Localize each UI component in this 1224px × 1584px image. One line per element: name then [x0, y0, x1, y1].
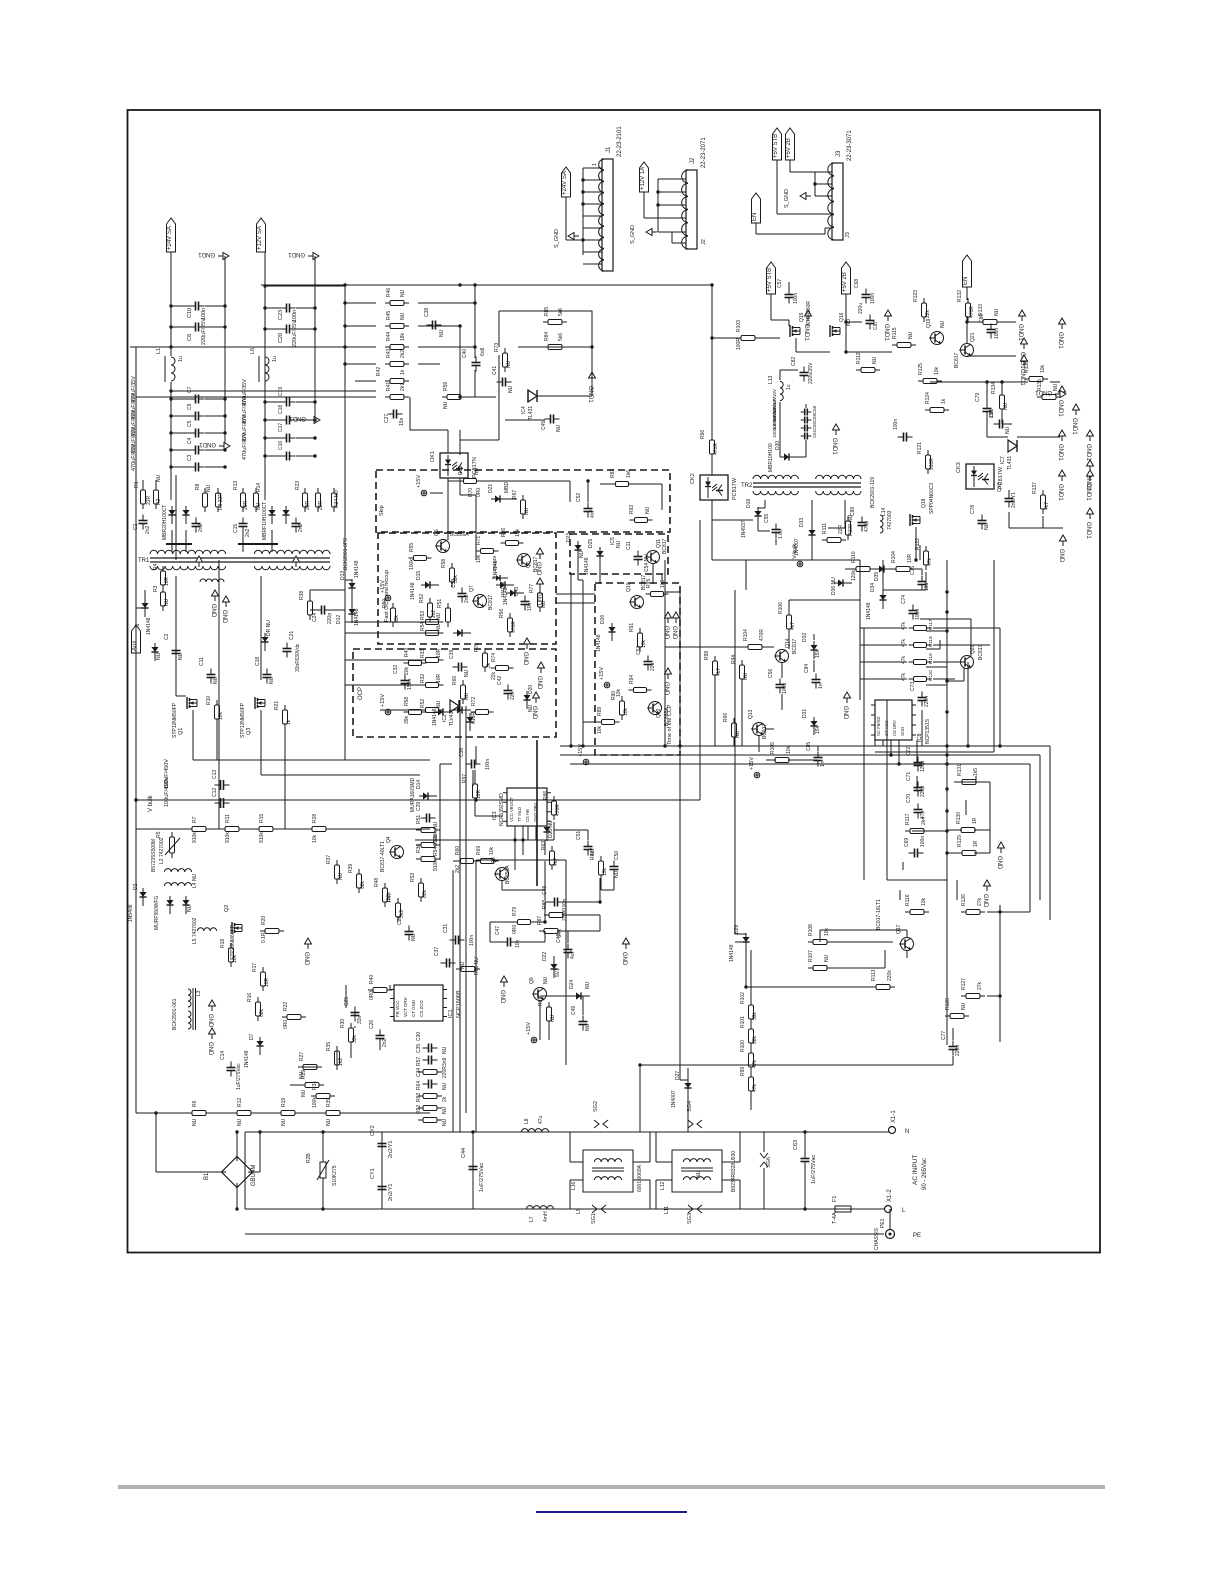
svg-text:D23: D23 — [566, 533, 572, 542]
svg-text:C37: C37 — [434, 947, 440, 956]
svg-text:R121: R121 — [917, 442, 923, 454]
svg-text:5k6: 5k6 — [558, 333, 564, 341]
resistor R92 NU — [418, 1118, 442, 1123]
svg-text:10k: 10k — [597, 725, 603, 734]
ground GND — [210, 590, 219, 618]
svg-text:R96: R96 — [700, 430, 706, 439]
diode D8 MBRF10H100CT — [268, 506, 275, 524]
svg-text:1N4148: 1N4148 — [500, 581, 505, 598]
svg-text:1N4148: 1N4148 — [584, 557, 590, 575]
svg-text:Q2: Q2 — [224, 905, 230, 912]
transistor Q1 STP12NM50FP — [187, 697, 197, 709]
capacitor C51 4n7 — [584, 841, 593, 856]
transistor Q13 BC817 — [751, 723, 766, 736]
svg-text:Q4: Q4 — [386, 836, 392, 843]
capacitor C39 NU — [453, 663, 468, 672]
capacitor C2 NU — [172, 645, 181, 660]
ground S_GND — [800, 193, 811, 200]
svg-text:1N4148: 1N4148 — [244, 1050, 250, 1068]
svg-text:R84: R84 — [544, 332, 550, 341]
svg-text:220p: 220p — [327, 613, 333, 624]
svg-text:4mH: 4mH — [543, 1211, 549, 1222]
wire — [265, 419, 281, 421]
svg-text:Skip: Skip — [379, 505, 385, 516]
transformer L3 BCK2901-061 — [188, 989, 191, 1007]
wire — [265, 285, 345, 287]
wire — [142, 480, 144, 490]
svg-text:Q18: Q18 — [921, 498, 927, 508]
svg-text:2n2: 2n2 — [245, 528, 251, 537]
svg-text:C52: C52 — [576, 493, 582, 502]
resistor R82 13k — [599, 856, 604, 880]
svg-text:CY1: CY1 — [370, 1168, 376, 1179]
svg-text:BCK2901-0P8: BCK2901-0P8 — [343, 538, 349, 570]
svg-text:1N4148: 1N4148 — [729, 944, 735, 962]
ground GND — [207, 1028, 216, 1056]
wire — [475, 746, 477, 764]
wire — [711, 285, 713, 440]
resistor R7 910k — [187, 827, 211, 832]
svg-text:B1: B1 — [204, 1172, 210, 1180]
svg-text:1N4148: 1N4148 — [354, 560, 360, 578]
wire — [933, 627, 1000, 629]
resistor R49 20k — [404, 661, 427, 666]
svg-text:10k: 10k — [312, 834, 318, 843]
svg-text:R63: R63 — [541, 841, 547, 850]
wire — [600, 876, 602, 890]
svg-text:NU: NU — [192, 1118, 198, 1126]
wire — [711, 520, 713, 560]
svg-text:GND: GND — [536, 676, 542, 690]
svg-text:GND: GND — [996, 856, 1002, 870]
net flag +5VSTB rail — [767, 262, 776, 294]
svg-text:D33: D33 — [799, 518, 805, 527]
resistor R122 47k — [924, 546, 929, 570]
svg-text:1uF/275Vac: 1uF/275Vac — [236, 1063, 242, 1090]
svg-text:82k: 82k — [422, 889, 428, 898]
wire — [171, 305, 190, 307]
svg-text:Q14: Q14 — [785, 638, 791, 648]
wire — [714, 680, 716, 746]
svg-text:F1: F1 — [832, 1196, 838, 1202]
svg-text:CS DRV: CS DRV — [892, 720, 897, 736]
svg-text:1uF/275Vac: 1uF/275Vac — [479, 1162, 485, 1192]
svg-text:NU: NU — [436, 623, 442, 631]
resistor R1 22R — [141, 485, 146, 509]
svg-text:C43: C43 — [514, 587, 520, 596]
junction — [134, 798, 137, 801]
capacitor C27 15n — [388, 410, 403, 419]
ground GND — [535, 548, 544, 576]
svg-text:Q7: Q7 — [469, 585, 475, 592]
transistor Q8 BC856A — [494, 868, 509, 881]
svg-text:1: 1 — [592, 163, 598, 166]
svg-text:47k: 47k — [901, 638, 907, 647]
svg-text:R64: R64 — [416, 1081, 422, 1090]
svg-text:R55: R55 — [409, 543, 415, 552]
diode D4 MURF550WFG — [166, 896, 173, 914]
svg-text:EN: EN — [752, 213, 758, 221]
diode D17 1N4148 — [506, 589, 524, 596]
wire — [472, 1132, 474, 1209]
svg-text:R33: R33 — [420, 649, 426, 658]
transistor Q15 NTD4960R — [790, 325, 800, 337]
svg-text:R124: R124 — [925, 392, 931, 404]
resistor R22 0R0 — [282, 1015, 306, 1020]
wire — [474, 860, 480, 862]
resistor R63 4k7 — [550, 846, 555, 870]
capacitor C21 33nF630Vdc — [283, 643, 292, 658]
wire — [381, 1132, 383, 1209]
svg-text:1u: 1u — [178, 356, 184, 362]
svg-text:X1-1: X1-1 — [891, 1110, 897, 1123]
svg-text:C46: C46 — [556, 934, 562, 943]
op-amp IC2 TLV431 — [450, 700, 459, 712]
svg-text:D22: D22 — [542, 952, 548, 961]
resistor R129 1R — [957, 851, 981, 856]
op-amp IC4 TL431 — [528, 390, 537, 402]
svg-text:1N4148: 1N4148 — [596, 634, 602, 652]
svg-text:0R0: 0R0 — [369, 991, 375, 1000]
svg-text:C20: C20 — [278, 333, 284, 343]
wire — [345, 579, 352, 581]
diode D6 — [182, 506, 189, 524]
svg-text:R27: R27 — [299, 1052, 305, 1061]
capacitor C15 2n2 — [239, 518, 248, 533]
wire — [644, 217, 658, 219]
svg-text:GND1: GND1 — [1035, 389, 1052, 395]
svg-text:S_GND: S_GND — [554, 229, 560, 248]
wire — [260, 576, 262, 680]
svg-text:L6: L6 — [250, 348, 256, 354]
capacitor C46 4u7 — [564, 944, 573, 959]
svg-text:S_GND: S_GND — [784, 189, 790, 208]
svg-text:L7: L7 — [529, 1216, 535, 1222]
resistor R33 10R — [421, 658, 444, 663]
svg-text:C32: C32 — [393, 665, 399, 674]
svg-text:C75: C75 — [910, 566, 916, 575]
svg-text:GND: GND — [671, 626, 677, 640]
ground GND1 — [587, 372, 596, 403]
svg-text:10R: 10R — [436, 648, 442, 658]
capacitor C32 150n — [401, 675, 410, 690]
svg-text:10k: 10k — [623, 707, 629, 716]
svg-text:22R: 22R — [318, 500, 324, 510]
wire — [284, 725, 286, 829]
wire — [322, 1132, 324, 1162]
svg-text:J1: J1 — [606, 146, 612, 153]
wire — [661, 574, 663, 584]
svg-text:R30: R30 — [340, 1019, 346, 1028]
wire — [733, 742, 735, 746]
wire — [577, 558, 579, 580]
capacitor C44 1uF/275Vac — [469, 1161, 478, 1176]
svg-text:R39: R39 — [326, 1098, 332, 1107]
svg-text:NU: NU — [824, 954, 830, 962]
wire — [170, 382, 172, 500]
svg-text:GND: GND — [842, 706, 848, 720]
svg-text:R48: R48 — [374, 878, 380, 887]
svg-text:R7: R7 — [192, 816, 198, 823]
svg-text:NU: NU — [550, 1014, 556, 1022]
svg-text:C87: C87 — [873, 321, 879, 330]
svg-text:BC817: BC817 — [662, 538, 668, 554]
capacitor C87 220u — [866, 315, 875, 330]
wire — [415, 839, 545, 841]
ground GND — [531, 692, 540, 720]
wire — [171, 415, 190, 417]
svg-text:NU: NU — [908, 331, 914, 339]
svg-text:C8: C8 — [187, 334, 193, 341]
power +15V — [380, 580, 391, 601]
svg-text:910R: 910R — [929, 458, 935, 470]
junction — [235, 1130, 238, 1133]
svg-text:NU: NU — [506, 360, 512, 368]
inductor L14 7427003 — [880, 515, 883, 533]
svg-text:GND: GND — [1058, 549, 1064, 563]
svg-text:NU: NU — [1003, 402, 1009, 410]
diode D25 NU — [543, 823, 550, 841]
svg-text:C2: C2 — [164, 633, 170, 640]
resistor R29 NU — [300, 1083, 324, 1088]
resistor R20 0.1R — [260, 929, 284, 934]
wire — [459, 440, 461, 455]
optocoupler CK3 PC817W — [966, 464, 994, 489]
diode D20 NU — [523, 691, 530, 709]
resistor R67 NU — [521, 495, 526, 519]
svg-text:CY3: CY3 — [997, 482, 1003, 492]
resistor R96 470R — [710, 435, 715, 459]
svg-text:22-23-3071: 22-23-3071 — [847, 130, 853, 161]
transistor Q11 BC817 — [645, 551, 660, 564]
svg-text:GND1: GND1 — [1071, 418, 1077, 435]
svg-text:220p: 220p — [920, 786, 926, 797]
svg-text:R38: R38 — [299, 591, 305, 600]
svg-text:R23: R23 — [295, 481, 301, 490]
svg-text:PE: PE — [913, 1233, 921, 1239]
svg-text:C45: C45 — [541, 421, 547, 430]
capacitor C56 100u — [776, 679, 785, 694]
wire — [476, 859, 554, 861]
wire — [556, 593, 595, 595]
svg-text:1R: 1R — [972, 817, 978, 824]
fuse F1 T-4A — [831, 1206, 855, 1212]
capacitor C49 NU — [579, 1016, 588, 1031]
svg-text:R94: R94 — [629, 675, 635, 684]
svg-text:J2: J2 — [690, 157, 696, 164]
wire — [970, 619, 972, 656]
svg-text:BC817: BC817 — [954, 352, 960, 368]
svg-text:1N4148: 1N4148 — [354, 608, 360, 626]
svg-text:R74: R74 — [491, 653, 497, 662]
transistor Q14 BC817 — [774, 650, 789, 663]
wire — [771, 319, 789, 321]
wire — [245, 1131, 890, 1133]
transistor Q3 STP12NM50FP — [255, 697, 265, 709]
svg-text:R14: R14 — [256, 483, 262, 492]
svg-text:R75: R75 — [474, 643, 480, 652]
svg-text:C51: C51 — [576, 831, 582, 840]
diode D17b — [466, 713, 473, 731]
resistor R51 100k — [416, 828, 440, 833]
capacitor C19 470uF/35V — [281, 398, 296, 407]
svg-text:BCK2901-061: BCK2901-061 — [172, 998, 178, 1030]
svg-text:CS ZCD: CS ZCD — [419, 1000, 424, 1018]
svg-text:Q6: Q6 — [526, 561, 532, 568]
svg-text:GND: GND — [535, 562, 541, 576]
wire — [314, 256, 316, 420]
svg-text:GND1: GND1 — [883, 324, 889, 341]
svg-text:220uF/25V: 220uF/25V — [292, 320, 298, 347]
svg-text:MBR20H100CT: MBR20H100CT — [162, 505, 168, 540]
svg-text:D20: D20 — [528, 685, 534, 694]
svg-text:4k7: 4k7 — [790, 622, 796, 630]
svg-text:1uF/275Vac: 1uF/275Vac — [811, 1154, 817, 1184]
wire — [652, 564, 654, 584]
wire — [712, 559, 860, 561]
resistor R48 750k — [383, 883, 388, 907]
wire — [515, 941, 545, 943]
diode D13 1N4148 — [348, 579, 355, 597]
wire — [344, 540, 346, 560]
svg-text:C38: C38 — [424, 308, 430, 317]
svg-text:GND1: GND1 — [198, 251, 215, 257]
connector J1 22-23-2101 — [599, 126, 623, 271]
schematic frame border — [128, 110, 1101, 1253]
wire — [418, 302, 475, 304]
diode D7 1N4148 — [256, 1037, 263, 1055]
svg-text:D25 NU: D25 NU — [548, 820, 554, 838]
svg-text:R94: R94 — [731, 655, 737, 664]
resistor R130 1R — [956, 828, 980, 833]
svg-text:10k: 10k — [232, 954, 238, 963]
capacitor C38 NU — [427, 321, 442, 330]
resistor R56 470R — [508, 613, 513, 637]
svg-text:R123: R123 — [913, 290, 919, 302]
svg-text:L8: L8 — [524, 1118, 530, 1124]
svg-text:GND: GND — [663, 626, 669, 640]
wire — [649, 1180, 651, 1209]
svg-text:4k7: 4k7 — [716, 668, 722, 676]
dashed box Time of the CCP — [595, 583, 680, 755]
wire — [562, 914, 600, 916]
svg-text:NU: NU — [994, 308, 1000, 316]
wire — [447, 481, 449, 493]
capacitor C10 100n — [190, 302, 205, 311]
svg-text:C7: C7 — [187, 386, 193, 393]
svg-text:R109: R109 — [848, 524, 854, 536]
wire — [459, 700, 461, 985]
svg-text:PE1: PE1 — [880, 1218, 886, 1228]
svg-text:2n2: 2n2 — [198, 523, 204, 532]
svg-text:R105: R105 — [770, 742, 776, 754]
wire — [499, 311, 592, 396]
ground GND1 — [831, 424, 840, 455]
svg-text:1R: 1R — [973, 840, 979, 847]
svg-text:+15V: +15V — [380, 694, 386, 707]
svg-text:N: N — [905, 1129, 909, 1135]
wire — [248, 1171, 260, 1173]
svg-text:2n2/Y1: 2n2/Y1 — [388, 1141, 394, 1158]
resistor R118 47k — [909, 643, 932, 648]
svg-text:C33: C33 — [451, 579, 457, 588]
wire — [565, 860, 567, 1065]
svg-text:C82: C82 — [791, 357, 797, 366]
capacitor C11 NU — [207, 669, 216, 684]
wire — [265, 307, 281, 309]
svg-text:120k: 120k — [851, 570, 857, 581]
svg-text:NU: NU — [442, 1082, 448, 1090]
capacitor C45 NU — [545, 415, 560, 424]
diode D2 1N5408 — [139, 888, 146, 906]
svg-text:22k: 22k — [925, 309, 931, 318]
wire — [930, 381, 1028, 383]
svg-text:C40: C40 — [462, 349, 468, 358]
op-amp IC3 NCP1392B — [503, 788, 551, 826]
svg-text:1N4148: 1N4148 — [492, 555, 497, 572]
resistor R73 NU — [503, 348, 508, 372]
capacitor C28 NU — [405, 926, 414, 941]
svg-text:15V: 15V — [815, 648, 821, 658]
transistor Q5 BC856A — [435, 540, 450, 553]
wire — [860, 627, 907, 629]
svg-text:C18: C18 — [255, 657, 261, 666]
svg-text:MBRF10H100CT: MBRF10H100CT — [262, 502, 268, 540]
svg-text:R44: R44 — [386, 332, 392, 341]
wire — [587, 830, 589, 840]
ground GND1 — [1085, 508, 1094, 539]
resistor R76 10k — [501, 541, 524, 546]
svg-text:R53: R53 — [420, 611, 426, 620]
svg-text:C42: C42 — [497, 676, 503, 685]
svg-text:C50: C50 — [614, 851, 620, 860]
wire — [310, 609, 316, 611]
wire — [344, 285, 346, 540]
svg-text:R29: R29 — [301, 1070, 307, 1079]
svg-text:R132: R132 — [957, 290, 963, 302]
svg-text:R58: R58 — [441, 559, 447, 568]
choke L12/L11 NU — [672, 1150, 722, 1192]
svg-text:Q10: Q10 — [626, 582, 632, 592]
power +15V — [380, 694, 391, 715]
svg-text:7427003: 7427003 — [887, 510, 893, 530]
ground GND1 — [1057, 386, 1066, 417]
svg-text:GND: GND — [621, 952, 627, 966]
resistor R111 22R — [822, 538, 846, 543]
svg-text:1k6: 1k6 — [626, 470, 632, 478]
wire — [898, 740, 900, 764]
net flag +5VSTB — [773, 128, 782, 160]
svg-text:GND: GND — [207, 1042, 213, 1056]
wire — [192, 710, 194, 760]
wire — [135, 829, 137, 1113]
wire — [570, 574, 572, 746]
svg-text:C11: C11 — [626, 541, 632, 550]
capacitor C47 10n — [502, 938, 517, 947]
svg-text:C47: C47 — [495, 926, 501, 935]
svg-text:4n7: 4n7 — [590, 509, 596, 518]
capacitor C72 120p — [914, 757, 923, 772]
svg-text:R40: R40 — [369, 975, 375, 984]
inductor L6 1u — [265, 357, 269, 381]
wire — [570, 1161, 583, 1163]
svg-text:C10: C10 — [187, 308, 193, 318]
svg-text:C85: C85 — [806, 742, 812, 751]
svg-text:6001.0069A: 6001.0069A — [637, 1164, 643, 1192]
svg-text:L13: L13 — [768, 375, 774, 384]
spark gap SG2 — [594, 1120, 608, 1128]
svg-text:R31: R31 — [312, 1081, 318, 1090]
